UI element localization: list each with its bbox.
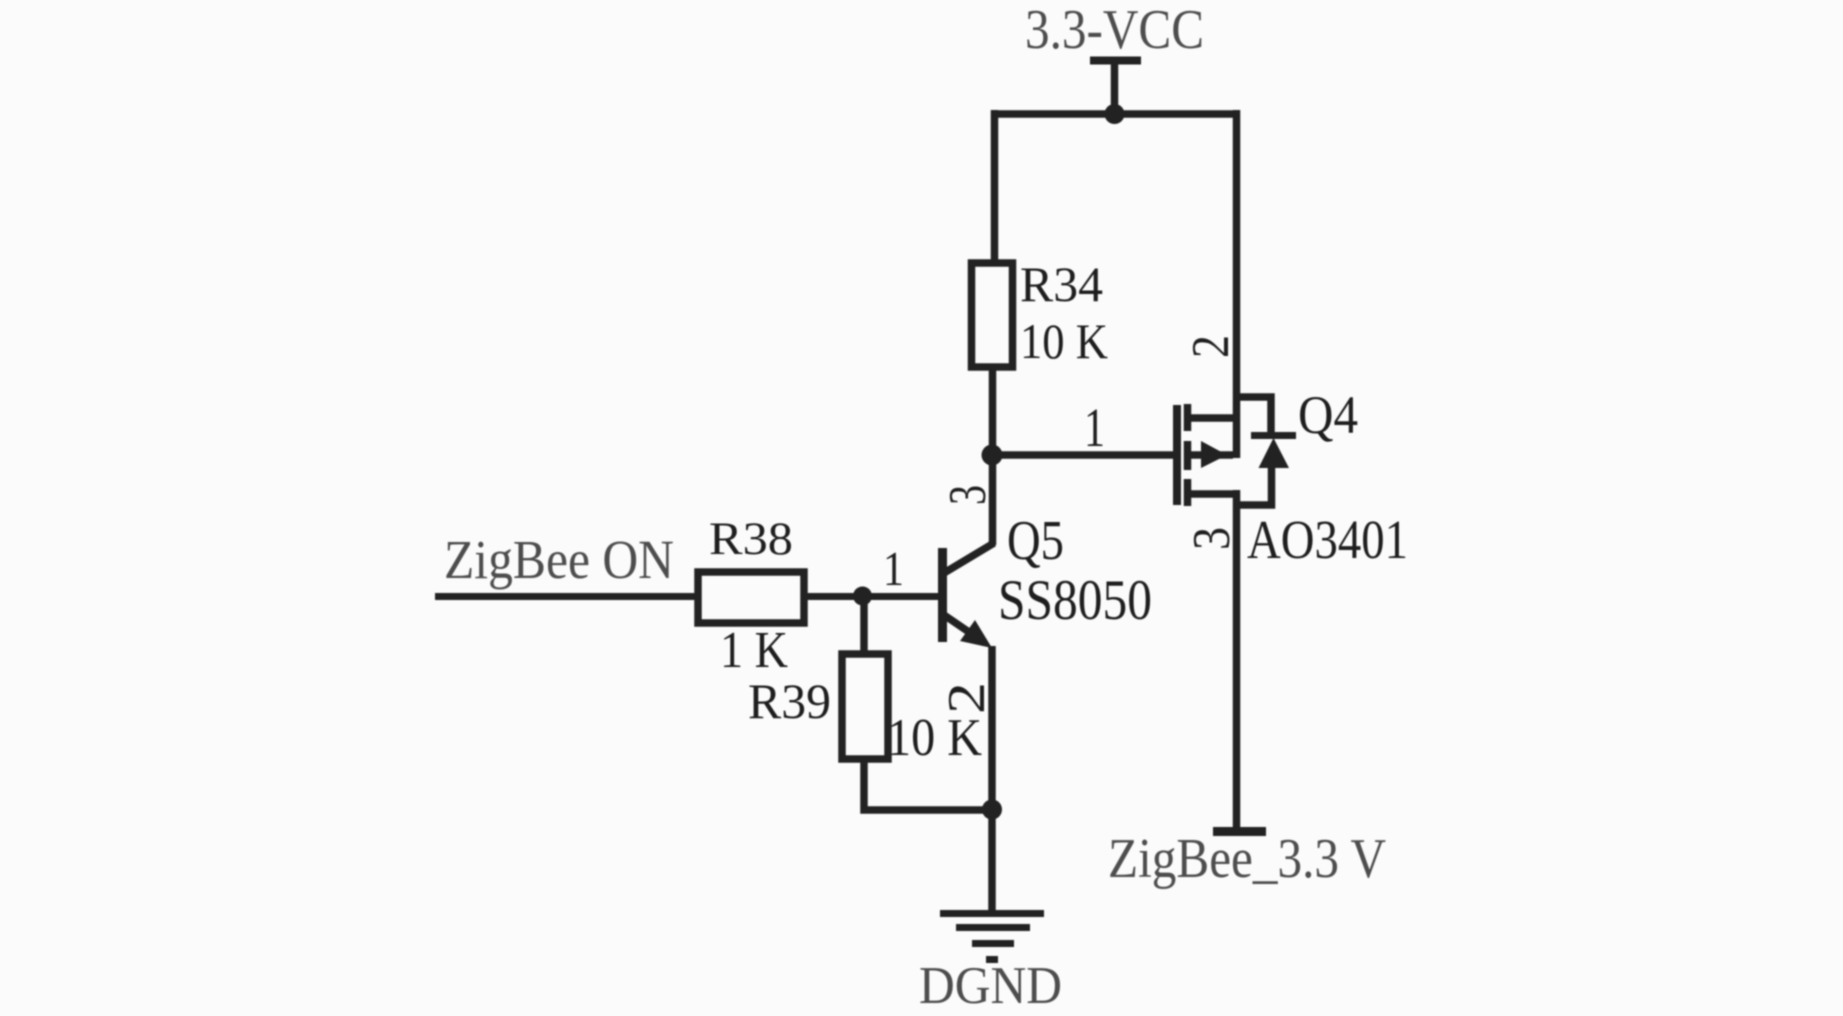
svg-text:1: 1 (1084, 397, 1105, 458)
svg-text:R39: R39 (748, 673, 831, 729)
svg-text:10 K: 10 K (1020, 313, 1108, 369)
svg-text:ZigBee_3.3 V: ZigBee_3.3 V (1108, 828, 1386, 890)
svg-text:2: 2 (938, 682, 996, 714)
svg-text:AO3401: AO3401 (1247, 509, 1408, 570)
svg-text:1: 1 (883, 541, 904, 596)
svg-text:3: 3 (1183, 527, 1241, 550)
svg-text:Q5: Q5 (1007, 510, 1064, 572)
svg-text:ZigBee ON: ZigBee ON (444, 529, 674, 590)
svg-text:1 K: 1 K (720, 622, 788, 679)
svg-text:R38: R38 (709, 513, 793, 565)
svg-text:3: 3 (939, 485, 997, 505)
svg-text:SS8050: SS8050 (998, 569, 1152, 632)
svg-text:3.3-VCC: 3.3-VCC (1025, 0, 1204, 61)
svg-text:Q4: Q4 (1298, 385, 1358, 445)
svg-text:DGND: DGND (919, 957, 1062, 1015)
svg-text:R34: R34 (1020, 256, 1103, 312)
svg-text:2: 2 (1182, 335, 1240, 358)
svg-text:10 K: 10 K (887, 709, 982, 767)
